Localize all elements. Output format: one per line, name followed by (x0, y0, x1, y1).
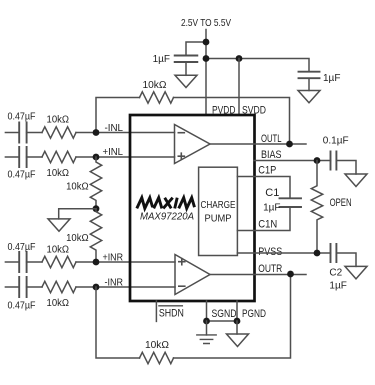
IC U1 MAX97220A body (130, 115, 255, 301)
wire C1P loop (237, 177, 290, 199)
resistor 10kohm left feedback (140, 92, 174, 103)
resistor 10k (42, 127, 76, 138)
resistor 10kohm bias divider lower (90, 209, 101, 262)
wire (27, 261, 42, 263)
wire VDD branch to PVDD bypass cap (186, 42, 206, 55)
wire cap to ground (185, 63, 187, 76)
svg-text:SHDN: SHDN (159, 307, 184, 319)
capacitor 1uF SVDD bypass (299, 72, 320, 79)
svg-text:10kΩ: 10kΩ (66, 232, 89, 244)
resistor 10k (42, 256, 76, 267)
wire to IC (76, 286, 175, 288)
node +INR (93, 259, 100, 266)
wire SGND-PGND (207, 320, 238, 322)
capacitor 0.47uF (19, 277, 26, 297)
wire to IC (76, 261, 175, 263)
svg-text:BIAS: BIAS (261, 149, 282, 161)
ground triangle BIAS cap (345, 174, 367, 187)
svg-text:C1N: C1N (258, 219, 277, 231)
capacitor 0.47uF (19, 252, 26, 272)
svg-text:10kΩ: 10kΩ (47, 244, 70, 256)
svg-text:-INR: -INR (105, 277, 124, 289)
wire PVSS to C2 (237, 252, 330, 254)
wire SVDD down (238, 59, 240, 114)
charge pump block (199, 167, 238, 255)
svg-text:C1: C1 (265, 187, 279, 199)
ground triangle C2 (345, 266, 367, 279)
node BIAS (314, 157, 321, 164)
svg-text:10kΩ: 10kΩ (47, 167, 70, 179)
wire cap to ground (308, 79, 310, 91)
svg-text:0.47µF: 0.47µF (8, 242, 36, 253)
svg-text:10kΩ: 10kΩ (66, 181, 89, 193)
node OUTL (286, 141, 293, 148)
wire feedback rail L: -INL node up and right to OUTL (96, 98, 290, 145)
svg-text:0.1µF: 0.1µF (323, 135, 349, 146)
ground triangle below PVDD bypass cap (175, 75, 197, 87)
wire VDD rail to SVDD bypass cap (206, 59, 309, 72)
wire (27, 286, 42, 288)
svg-text:PUMP: PUMP (205, 214, 232, 225)
op-amp left channel (175, 125, 211, 164)
wire SGND down (206, 321, 208, 335)
node supply junction upper (203, 39, 210, 46)
wire to IC (76, 156, 175, 158)
svg-text:MAX97220A: MAX97220A (140, 211, 194, 223)
svg-text:+INL: +INL (103, 146, 124, 158)
node SVDD branch (236, 55, 243, 62)
svg-text:C1P: C1P (258, 165, 276, 177)
svg-text:0.47µF: 0.47µF (8, 170, 36, 181)
wire PGND down (236, 321, 238, 334)
svg-text:OPEN: OPEN (330, 197, 352, 209)
svg-text:SVDD: SVDD (242, 105, 266, 117)
node PVSS (314, 250, 321, 257)
svg-text:+INR: +INR (103, 252, 124, 264)
wire C1N loop (237, 207, 290, 231)
node -INL (93, 129, 100, 136)
capacitor 0.1uF BIAS cap (331, 152, 337, 170)
svg-text:2.5V TO 5.5V: 2.5V TO 5.5V (181, 17, 231, 29)
svg-text:1µF: 1µF (323, 73, 340, 84)
svg-text:PVSS: PVSS (258, 246, 282, 258)
svg-text:0.47µF: 0.47µF (8, 300, 36, 311)
svg-text:1µF: 1µF (263, 203, 280, 214)
svg-text:SGND: SGND (212, 308, 237, 320)
pin SHDN stub (155, 301, 157, 321)
wire stub (5, 261, 19, 263)
node SGND (203, 318, 210, 325)
wire (27, 156, 42, 158)
wire stub (5, 132, 19, 134)
node OUTR (287, 271, 294, 278)
svg-text:10kΩ: 10kΩ (145, 339, 169, 351)
wire to ground (59, 209, 96, 219)
node PGND (234, 318, 241, 325)
capacitor C1 1uF flying cap (280, 198, 302, 207)
svg-text:OUTL: OUTL (261, 133, 282, 145)
svg-text:10kΩ: 10kΩ (143, 79, 167, 91)
wire stub (5, 286, 19, 288)
svg-text:PVDD: PVDD (212, 105, 236, 117)
resistor 10kohm bias divider upper (90, 157, 101, 209)
svg-text:0.47µF: 0.47µF (8, 112, 36, 123)
svg-text:1µF: 1µF (329, 280, 346, 291)
svg-text:OUTR: OUTR (258, 263, 282, 275)
pin PGND (236, 301, 238, 321)
ground triangle at bias divider midpoint (48, 219, 70, 231)
MAXIM logo (137, 198, 195, 209)
wire VDD supply vertical to PVDD pin (205, 30, 207, 114)
wire (27, 132, 42, 134)
svg-text:CHARGE: CHARGE (201, 200, 236, 211)
svg-text:1µF: 1µF (153, 54, 170, 65)
svg-text:-INL: -INL (105, 122, 124, 134)
ground triangle PGND (227, 334, 249, 347)
resistor 10k (42, 151, 76, 162)
wire OUTL stub (254, 143, 306, 145)
node +INL (93, 154, 100, 161)
resistor 10kohm right feedback (140, 352, 174, 363)
capacitor 0.47uF (19, 147, 26, 167)
svg-text:10kΩ: 10kΩ (47, 297, 70, 309)
op-amp right channel (175, 255, 210, 295)
ground signal (3-bar) SGND (197, 335, 216, 344)
wire op-amp L output (210, 143, 254, 145)
capacitor 1uF PVDD bypass (175, 56, 198, 63)
wire stub (5, 156, 19, 158)
svg-text:C2: C2 (329, 268, 342, 279)
wire BIAS to cap (254, 160, 331, 162)
wire to ground (336, 161, 356, 175)
wire OUTR stub (254, 274, 306, 276)
svg-text:PGND: PGND (242, 308, 266, 320)
node mid divider (93, 205, 100, 212)
wire to ground (336, 253, 356, 266)
pin SGND (206, 301, 208, 321)
resistor 10k (42, 281, 76, 292)
ground triangle below SVDD bypass cap (298, 91, 320, 103)
capacitor C2 1uF PVSS cap (331, 244, 337, 262)
node supply junction rail (203, 55, 210, 62)
resistor OPEN (not installed) BIAS to PVSS (311, 161, 322, 253)
wire op-amp R output (210, 274, 254, 276)
wire to IC (76, 132, 175, 134)
wire feedback rail R: -INR node down, right to OUTR (96, 274, 291, 358)
svg-text:10kΩ: 10kΩ (47, 114, 70, 126)
node -INR (93, 284, 100, 291)
capacitor 0.47uF (19, 123, 26, 143)
